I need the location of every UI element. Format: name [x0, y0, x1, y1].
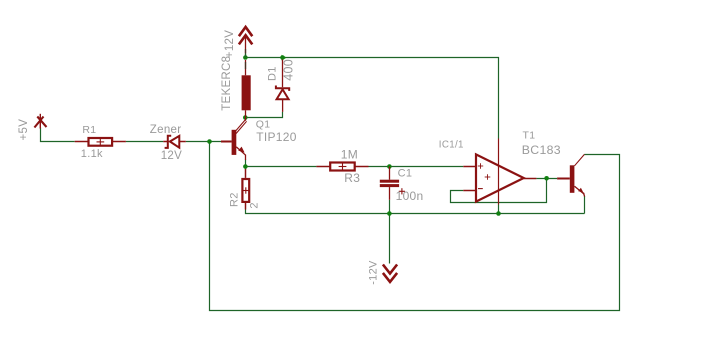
svg-text:R3: R3 [344, 171, 360, 185]
svg-text:+12V: +12V [224, 30, 236, 58]
svg-text:Zener: Zener [150, 124, 182, 136]
svg-text:Q1: Q1 [256, 119, 271, 131]
svg-text:1M: 1M [341, 148, 358, 162]
svg-text:100n: 100n [396, 189, 424, 203]
svg-text:TIP120: TIP120 [256, 130, 297, 144]
svg-text:R2: R2 [229, 192, 241, 207]
svg-text:-12V: -12V [367, 260, 379, 285]
svg-text:TEKERC8: TEKERC8 [221, 56, 233, 111]
svg-text:+5V: +5V [18, 119, 30, 141]
svg-text:D1: D1 [267, 66, 279, 81]
svg-text:T1: T1 [523, 129, 536, 141]
svg-text:2: 2 [248, 202, 260, 208]
svg-text:C1: C1 [398, 168, 413, 180]
svg-text:400: 400 [281, 59, 295, 81]
svg-text:IC1/1: IC1/1 [439, 140, 464, 151]
svg-text:BC183: BC183 [522, 143, 561, 157]
svg-text:R1: R1 [82, 124, 96, 136]
svg-text:12V: 12V [161, 150, 182, 162]
svg-text:1.1k: 1.1k [81, 148, 103, 160]
